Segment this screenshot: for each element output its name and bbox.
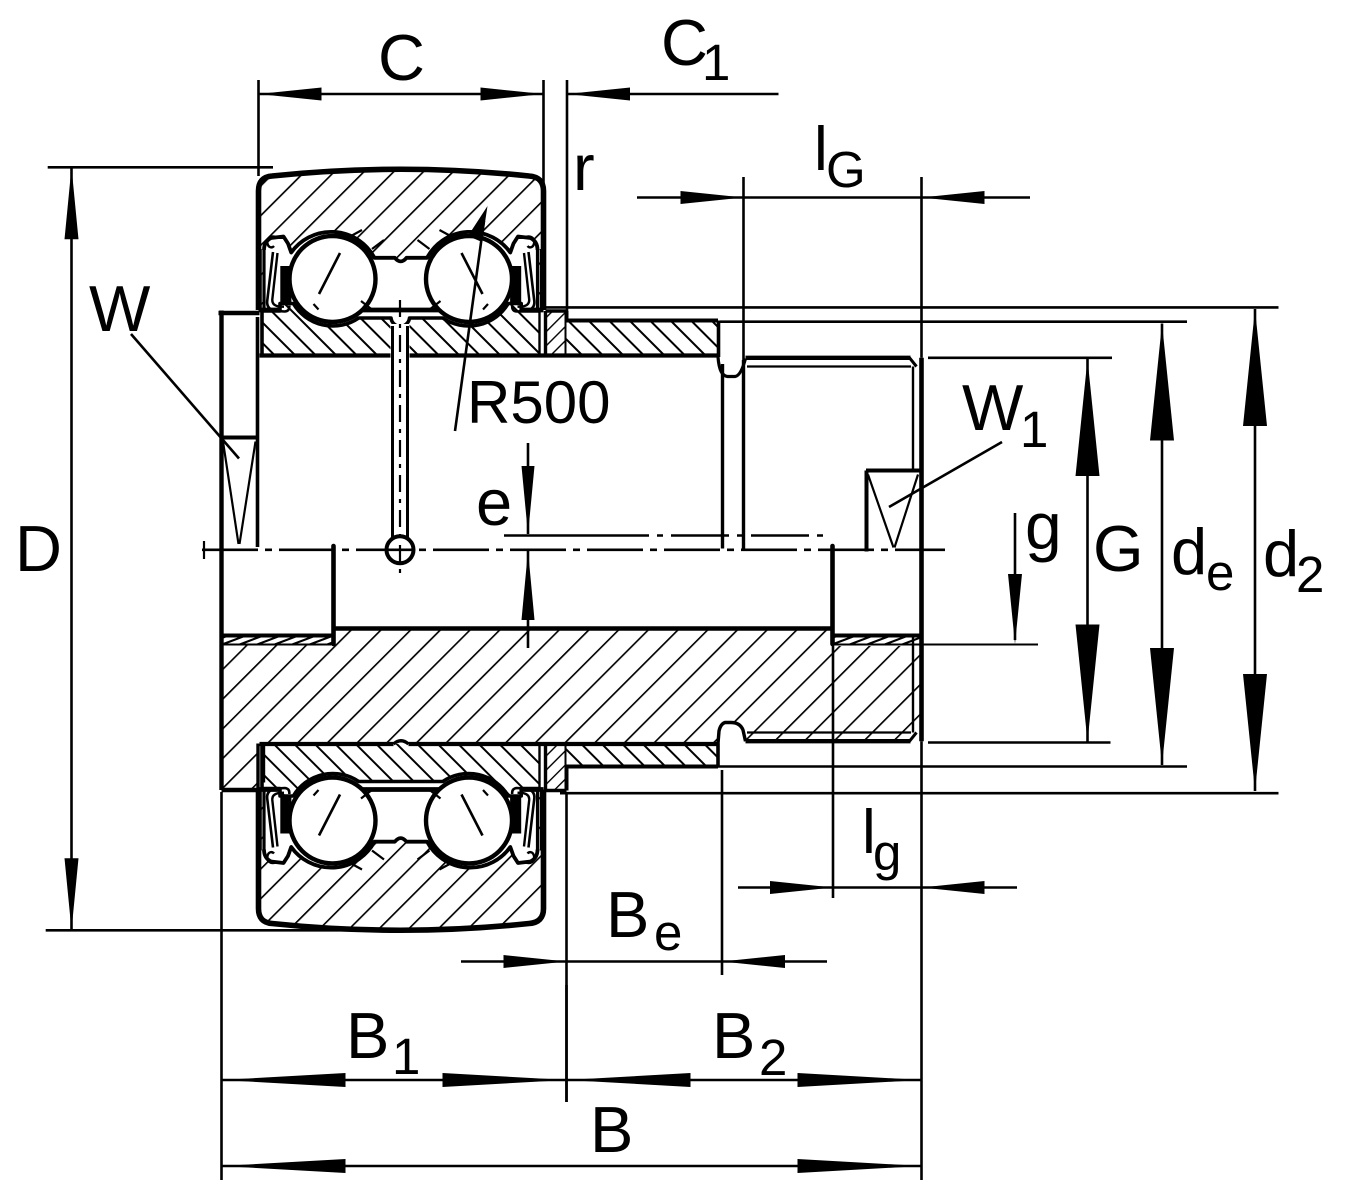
seal bottom-left <box>259 789 262 851</box>
inner ring left face <box>260 744 264 789</box>
lube cross hole <box>387 536 414 563</box>
socket W1 top wall <box>866 469 922 473</box>
thread major bottom <box>746 739 911 743</box>
seal carrier ring top right (fine hatch) <box>546 311 567 356</box>
socket W cone left <box>223 442 239 545</box>
thread minor top <box>747 365 911 367</box>
dimension C <box>257 80 260 176</box>
cage marks top <box>372 240 384 249</box>
dimension B1 <box>220 792 223 1180</box>
collar right face bottom <box>716 744 720 767</box>
outer ring OD profile <box>259 169 544 310</box>
dimension C1 <box>567 93 779 96</box>
dimension de <box>720 320 1187 323</box>
inner ring left face ext bottom <box>262 744 265 783</box>
g-thread root / g extension line <box>832 644 1038 646</box>
groove edge left <box>721 364 724 549</box>
eccentric collar extension top (fine hatch) <box>567 321 719 356</box>
svg-text:W: W <box>962 371 1024 444</box>
lube duct wall right <box>406 326 409 537</box>
dimension g <box>1014 513 1017 640</box>
collar right face top <box>717 321 721 358</box>
collar surface line (top) <box>260 353 391 357</box>
seal carrier ring bottom right (fine hatch) <box>546 744 567 791</box>
svg-text:B: B <box>606 878 649 951</box>
stud lower half section (hatched) <box>222 629 922 791</box>
ball at (332,820) <box>290 778 376 864</box>
g-thread bore line <box>832 634 922 638</box>
svg-text:g: g <box>873 824 901 881</box>
svg-text:B: B <box>712 999 755 1072</box>
collar bottom edge <box>567 765 719 769</box>
socket W top wall <box>222 436 258 440</box>
disc top edge <box>219 311 260 316</box>
plug thread root line <box>222 644 332 646</box>
label R500 + leader arrow <box>455 221 484 431</box>
inner ring right face <box>538 311 540 356</box>
stud end face <box>919 358 924 741</box>
dimension G <box>928 356 1112 359</box>
inner ring raceway profile <box>262 774 540 796</box>
stud centreline <box>202 548 945 551</box>
g-thread end wall <box>830 546 835 644</box>
svg-text:C: C <box>661 6 708 79</box>
disc right face bottom <box>256 744 259 791</box>
lube duct bore (white) <box>391 324 410 546</box>
inner ring left face <box>260 311 264 356</box>
outer ring raceway profile <box>264 232 538 262</box>
svg-text:e: e <box>1206 544 1234 601</box>
seal top-right <box>540 249 543 311</box>
svg-text:2: 2 <box>1296 546 1324 603</box>
inner ring right face <box>538 744 540 789</box>
svg-text:B: B <box>590 1093 633 1166</box>
plug thread bore line <box>222 634 332 638</box>
svg-text:D: D <box>15 512 62 585</box>
thread major top <box>746 356 911 360</box>
label W + leader <box>131 334 239 459</box>
dimension Be <box>565 793 568 1102</box>
seal top-left <box>259 249 262 311</box>
svg-text:G: G <box>826 141 866 198</box>
inner rings (bottom, fine hatch) <box>262 744 540 796</box>
dimension r <box>566 80 569 311</box>
svg-text:G: G <box>1093 512 1144 585</box>
svg-text:1: 1 <box>702 34 730 91</box>
svg-text:d: d <box>1171 515 1207 588</box>
label W1 + leader <box>889 442 1002 507</box>
svg-text:d: d <box>1263 517 1299 590</box>
thread end chamfer top <box>910 358 917 367</box>
dimension D <box>48 166 273 169</box>
svg-text:r: r <box>573 131 595 204</box>
socket W cone right <box>240 442 256 545</box>
eccentric collar extension bottom (fine hatch) <box>567 744 719 767</box>
ball at (332,279) <box>290 236 376 322</box>
seal bottom-right <box>540 789 543 851</box>
svg-text:B: B <box>346 999 389 1072</box>
svg-text:g: g <box>1025 489 1062 563</box>
inner rings (top, fine hatch) <box>262 304 540 356</box>
dimension lG <box>742 177 745 360</box>
outer ring bore line <box>259 308 544 313</box>
svg-text:2: 2 <box>759 1029 787 1086</box>
roller outer ring (top section, hatched) <box>259 169 544 310</box>
relief groove section (bottom) <box>718 723 746 744</box>
plug bore end wall <box>331 546 336 644</box>
collar axis (eccentric) <box>504 534 591 537</box>
groove edge right <box>742 360 745 549</box>
cage marks bottom <box>372 851 384 860</box>
ball at (469,279) <box>426 236 512 322</box>
disc bottom edge <box>222 788 260 793</box>
outer ring OD profile <box>259 790 544 931</box>
centreline end tick <box>203 541 205 559</box>
chamfer circle top <box>912 367 914 471</box>
svg-text:R500: R500 <box>467 369 610 436</box>
collar top edge <box>567 319 719 323</box>
dimension d2 <box>546 306 1279 309</box>
disc right face top <box>256 317 260 547</box>
svg-text:W: W <box>89 272 151 345</box>
svg-text:C: C <box>378 21 425 94</box>
dimension e <box>527 443 530 534</box>
socket W1 cone left <box>868 475 894 548</box>
chamfer circle bottom <box>912 637 914 733</box>
outer ring raceway profile <box>264 838 538 868</box>
dimension lg <box>832 637 835 898</box>
lube duct wall left <box>391 326 394 537</box>
lube hole axis <box>399 300 401 578</box>
outer ring bore line <box>259 787 544 792</box>
inner ring raceway profile <box>262 304 540 327</box>
dimension B <box>222 1165 922 1168</box>
collar surface line (bottom) with joint notch <box>260 742 394 746</box>
socket W1 cone right <box>895 475 919 548</box>
dimension B2 <box>567 1079 922 1082</box>
thread end chamfer bottom <box>910 733 917 742</box>
disc left face <box>219 311 223 791</box>
thread minor bottom <box>747 731 911 733</box>
roller outer ring (bottom section, hatched) <box>259 790 544 931</box>
svg-text:1: 1 <box>1020 401 1048 458</box>
ball at (469,820) <box>426 778 512 864</box>
svg-text:1: 1 <box>392 1028 420 1085</box>
socket W1 bottom-of-socket wall <box>865 471 869 552</box>
svg-text:e: e <box>476 466 512 539</box>
axial bore wall (bottom) <box>334 626 833 630</box>
svg-text:e: e <box>654 904 682 961</box>
relief groove (top, external view) <box>718 357 746 377</box>
